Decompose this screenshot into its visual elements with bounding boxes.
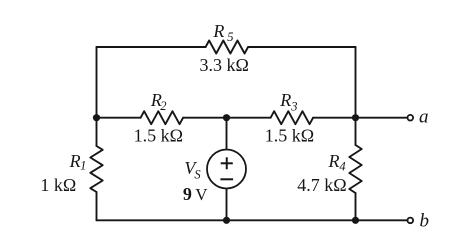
terminal b open circle [408,218,414,224]
svg-text:V: V [195,185,208,204]
wire right vertical lower [355,193,357,220]
source minus sign [220,178,233,180]
svg-text:a: a [419,106,429,127]
wire right vertical upper [355,47,357,145]
resistor R4 [349,145,361,193]
svg-text:5: 5 [227,30,233,44]
wire left vertical lower [96,192,98,220]
resistor R2 [141,111,184,124]
node dot source-top [223,114,230,121]
svg-text:R: R [279,90,291,110]
terminal a open circle [408,115,414,121]
svg-text:R: R [328,151,340,171]
node dot right-middle [352,114,359,121]
source V_S circle [207,150,246,189]
node dot source-bottom [223,217,230,224]
wire middle center-segment [183,117,271,119]
node dot right-bottom [352,217,359,224]
wire bottom [97,219,408,221]
resistor R1 [90,146,102,192]
svg-text:9: 9 [183,184,192,204]
svg-text:2: 2 [160,99,166,113]
wire source bottom lead [226,189,228,221]
svg-text:1: 1 [80,159,86,173]
source plus sign [221,157,233,169]
svg-text:R: R [69,151,81,171]
svg-text:1.5 kΩ: 1.5 kΩ [265,125,314,145]
svg-text:3.3 kΩ: 3.3 kΩ [200,55,249,75]
svg-text:1 kΩ: 1 kΩ [40,175,76,195]
svg-text:R: R [212,21,224,41]
wire middle left-segment [97,117,141,119]
wire top right-segment [248,46,355,48]
svg-text:1.5 kΩ: 1.5 kΩ [134,125,183,145]
svg-text:b: b [420,211,430,232]
wire middle to terminal a [313,117,407,119]
wire source top lead [226,118,228,150]
svg-text:S: S [194,168,201,182]
svg-text:4.7 kΩ: 4.7 kΩ [297,175,346,195]
resistor R5 [206,41,249,54]
resistor R3 [271,111,314,124]
wire top left-segment [97,46,206,48]
svg-text:3: 3 [290,99,297,113]
wire left vertical upper [96,47,98,146]
svg-text:4: 4 [339,159,345,173]
node dot left-middle [93,114,100,121]
